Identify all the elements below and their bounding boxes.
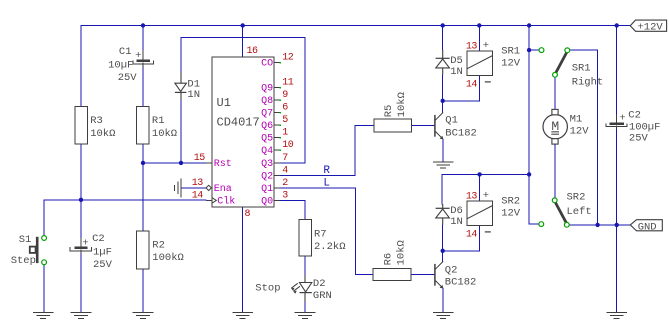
transistor Q2 BC182 — [435, 261, 476, 288]
svg-text:1N: 1N — [450, 216, 463, 228]
U1 unconnected pin green tips — [279, 63, 281, 151]
resistor R3 — [75, 107, 116, 144]
svg-text:10kΩ: 10kΩ — [90, 128, 115, 140]
svg-text:D2: D2 — [313, 278, 326, 290]
wire node R vertical riser — [354, 126, 356, 176]
svg-text:Rst: Rst — [214, 159, 232, 170]
wire SR1 coil pin14 down — [478, 75, 480, 100]
svg-text:Q0: Q0 — [261, 196, 273, 207]
svg-text:R6: R6 — [382, 253, 394, 266]
svg-text:C2: C2 — [92, 233, 105, 245]
op-amp U1 CD4017 counter box — [212, 57, 274, 207]
enable ground sideways at Ena pin — [175, 178, 181, 197]
junction C1 top rail — [141, 23, 145, 27]
wire Q3 feedback top run — [181, 36, 305, 38]
wire C2 bottom lead to ground — [80, 254, 82, 312]
svg-text:12V: 12V — [501, 208, 521, 220]
wire Q0 pin to R7 column — [280, 199, 305, 201]
U1 pin name labels — [261, 59, 273, 208]
junction C2b rail — [615, 23, 619, 27]
wire +12V top rail — [81, 25, 630, 27]
junction D5 rail — [441, 23, 445, 27]
diode D1 — [175, 72, 200, 102]
wire U1 pin8 to ground — [242, 207, 244, 312]
svg-text:12V: 12V — [570, 125, 590, 137]
junction SR1 coil rail — [477, 23, 481, 27]
svg-text:Q4: Q4 — [261, 146, 273, 157]
wire D1 bottom to reset line — [180, 100, 182, 163]
svg-text:+: + — [82, 238, 88, 250]
svg-text:25V: 25V — [93, 259, 113, 271]
svg-text:Ena: Ena — [214, 184, 232, 195]
wire clock line from S1 corner to U1 Clk pin — [44, 199, 206, 201]
wire left rail from +12V rail down to R3 top — [80, 26, 82, 107]
U1 pin numbers — [192, 46, 294, 220]
ground at Q2 emitter — [433, 312, 454, 318]
ground under R2 — [133, 312, 154, 318]
svg-text:BC182: BC182 — [445, 277, 477, 289]
svg-text:9: 9 — [282, 90, 288, 101]
svg-text:100kΩ: 100kΩ — [152, 252, 184, 264]
resistor R6 — [373, 240, 411, 281]
svg-text:Left: Left — [567, 206, 592, 218]
svg-text:13: 13 — [466, 192, 478, 203]
svg-text:5: 5 — [282, 115, 288, 126]
wire GND column right vertical — [597, 50, 599, 225]
diode D6 flyback — [436, 204, 463, 228]
wire node L from Q1 pin — [280, 187, 355, 189]
svg-text:13: 13 — [192, 178, 204, 189]
wire R6 right to Q2 base — [411, 274, 434, 276]
wire reset node down to R2 top — [142, 163, 144, 231]
wire D5 anode to Q1 collector node — [442, 75, 444, 101]
wire C1 bottom to R1 top — [142, 67, 144, 107]
ground under S1 — [33, 312, 54, 318]
svg-text:Q1: Q1 — [445, 114, 458, 126]
ground bottom right — [606, 312, 627, 318]
svg-text:10kΩ: 10kΩ — [152, 128, 177, 140]
motor M1 — [543, 109, 589, 144]
relay contact SR1 Right — [539, 48, 603, 89]
resistor R5 — [374, 92, 412, 132]
capacitor C2 electrolytic 1uF — [70, 233, 112, 271]
svg-text:R1: R1 — [152, 115, 165, 127]
svg-text:3: 3 — [282, 190, 288, 201]
U1 Rst pin stub — [206, 162, 212, 164]
wire Q3 pin to feedback vertical — [280, 162, 305, 164]
svg-text:Q1: Q1 — [261, 184, 273, 195]
junction reset node at R1 bottom — [141, 161, 145, 165]
LED D2 GRN — [291, 276, 332, 303]
wire Q0 down to R7 top — [304, 200, 306, 219]
svg-text:C2: C2 — [628, 110, 641, 122]
junction x528 rail — [527, 23, 531, 27]
U1 clock input triangle marker — [212, 198, 217, 204]
svg-text:6: 6 — [282, 103, 288, 114]
svg-text:Q2: Q2 — [445, 264, 458, 276]
wire SR1 coil pin13 to +12V rail — [478, 26, 480, 52]
diode D5 flyback — [436, 50, 463, 79]
svg-text:Q3: Q3 — [261, 159, 273, 170]
capacitor C1 — [108, 46, 154, 84]
svg-text:25V: 25V — [118, 72, 138, 84]
svg-text:BC182: BC182 — [445, 128, 477, 140]
svg-text:4: 4 — [282, 165, 288, 176]
wire D5 cathode to +12V rail — [442, 26, 444, 50]
wire Q2 emitter to ground — [442, 289, 444, 312]
wire SR1 pole to M1 plus — [554, 77, 556, 109]
wire node L to R6 left — [355, 274, 373, 276]
wire C2b top from +12V rail — [616, 26, 618, 115]
wire SR1 contact NO terminal stub — [529, 49, 539, 51]
svg-text:+: + — [135, 50, 141, 62]
power flag GND — [630, 220, 662, 234]
svg-text:25V: 25V — [629, 133, 649, 145]
wire M1 minus to SR2 pole — [554, 144, 556, 198]
wire SR2 common to GND flag — [569, 224, 630, 226]
junction GND column C2b — [615, 223, 619, 227]
svg-text:R: R — [323, 165, 330, 177]
wire D1 top lead — [180, 37, 182, 71]
power flag +12V — [630, 20, 666, 33]
wire SR1 coil pin14 to Q1 collector node — [443, 100, 480, 102]
svg-text:U1: U1 — [217, 96, 231, 110]
svg-text:1: 1 — [282, 128, 288, 139]
svg-text:Stop: Stop — [255, 282, 280, 294]
svg-text:Q8: Q8 — [261, 96, 273, 107]
svg-text:7: 7 — [282, 153, 288, 164]
wire D6 cathode riser — [441, 174, 443, 204]
resistor R2 — [137, 231, 184, 269]
svg-text:CD4017: CD4017 — [217, 115, 260, 129]
svg-text:Clk: Clk — [217, 195, 235, 207]
junction SR2 coil feed right — [527, 172, 531, 176]
svg-text:C1: C1 — [119, 46, 132, 58]
wire SR2 coil pin14 down — [478, 225, 480, 250]
junction Q2 collector node — [441, 249, 445, 253]
junction GND column top — [595, 223, 599, 227]
svg-text:2.2kΩ: 2.2kΩ — [314, 241, 346, 253]
wire SR2 coil pin13 lead — [479, 174, 481, 201]
svg-text:1N: 1N — [187, 89, 200, 101]
svg-text:14: 14 — [466, 79, 478, 90]
svg-text:14: 14 — [192, 191, 204, 202]
wire +12V branch column x528 — [528, 26, 530, 225]
wire node R from Q2 pin — [280, 174, 355, 176]
wire Q1 collector lead — [442, 101, 444, 113]
transistor Q1 BC182 — [435, 112, 477, 139]
wire SR1 contact common to GND column — [570, 49, 598, 51]
wire D6 anode to Q2 collector node — [442, 225, 444, 251]
svg-text:1µF: 1µF — [93, 246, 112, 258]
wire R7 bottom to D2 anode — [304, 256, 306, 275]
svg-text:Q5: Q5 — [261, 134, 273, 145]
ground under C2 — [71, 312, 92, 318]
wire SR2 contact NO terminal stub — [529, 223, 539, 225]
relay coil SR1 — [466, 40, 521, 90]
wire node R to R5 left — [355, 125, 374, 127]
wire C2b bottom to GND line — [616, 129, 618, 225]
svg-text:12V: 12V — [501, 58, 521, 70]
svg-text:L: L — [323, 177, 330, 189]
svg-text:R3: R3 — [90, 115, 103, 127]
svg-text:100µF: 100µF — [629, 122, 661, 134]
svg-text:10kΩ: 10kΩ — [396, 92, 408, 117]
svg-text:GND: GND — [638, 221, 657, 233]
junction clock node — [79, 198, 83, 202]
wire SR2 coil pin14 to Q2 collector node — [443, 250, 480, 252]
wire node L vertical dropper — [354, 188, 356, 275]
svg-text:10: 10 — [282, 140, 294, 151]
wire Q1 emitter to ground — [442, 139, 444, 161]
svg-text:10µF: 10µF — [108, 59, 133, 71]
svg-text:+: + — [483, 40, 489, 52]
resistor R1 — [137, 107, 177, 144]
wire Ena pin to enable ground — [181, 187, 206, 189]
svg-text:Step: Step — [11, 255, 36, 267]
svg-text:SR1: SR1 — [572, 63, 591, 75]
wire R3 bottom to clock node — [80, 144, 82, 200]
junction D1 reset line — [179, 161, 183, 165]
svg-text:14: 14 — [466, 229, 478, 240]
wire S1 top lead — [43, 200, 45, 236]
svg-text:12: 12 — [282, 53, 294, 64]
wire Q3 feedback right vertical — [304, 37, 306, 163]
svg-text:1N: 1N — [450, 66, 463, 78]
wire S1 bottom lead to ground — [43, 265, 45, 312]
ground at Q1 emitter — [433, 162, 454, 168]
svg-text:SR2: SR2 — [501, 196, 520, 208]
wire C1 top lead from rail — [142, 26, 144, 51]
wire C2 top lead — [80, 200, 82, 238]
wire reset line to U1 Rst pin — [143, 162, 206, 164]
wire R5 right to Q1 base — [411, 125, 434, 127]
svg-text:2: 2 — [282, 178, 288, 189]
svg-text:8: 8 — [245, 209, 251, 220]
U1 Clk pin stub — [206, 199, 212, 201]
wire U1 pin16 to +12V rail — [242, 26, 244, 57]
svg-text:+: + — [483, 190, 489, 202]
svg-text:+12V: +12V — [638, 21, 664, 33]
junction SR1 contact NO — [527, 48, 531, 52]
U1 Ena inversion diamond — [206, 185, 211, 190]
capacitor C2 electrolytic 100uF — [606, 110, 661, 145]
svg-text:GRN: GRN — [313, 290, 332, 302]
svg-text:13: 13 — [466, 42, 478, 53]
svg-text:SR1: SR1 — [501, 46, 520, 58]
svg-text:+: + — [619, 113, 625, 125]
wire R2 bottom to ground — [142, 269, 144, 312]
svg-text:SR2: SR2 — [567, 192, 586, 204]
junction pin16 rail — [241, 23, 245, 27]
svg-text:M1: M1 — [570, 114, 583, 126]
svg-text:Q6: Q6 — [261, 121, 273, 132]
wire GND line down to bottom ground — [616, 225, 618, 312]
wire D2 cathode to ground — [304, 302, 306, 312]
svg-text:10kΩ: 10kΩ — [395, 240, 407, 265]
ground under D2 — [295, 312, 316, 318]
svg-text:Right: Right — [572, 76, 604, 88]
wire R1 bottom to reset node — [142, 144, 144, 163]
push switch S1 — [11, 234, 47, 267]
svg-text:S1: S1 — [19, 234, 32, 246]
resistor R7 — [299, 220, 346, 257]
junction SR2 coil feed left — [477, 172, 481, 176]
svg-text:11: 11 — [282, 78, 294, 89]
ground under U1 pin8 — [232, 312, 253, 318]
svg-text:R2: R2 — [152, 239, 165, 251]
wire SR2 coil top run — [442, 173, 529, 175]
svg-text:Q9: Q9 — [261, 84, 273, 95]
svg-text:15: 15 — [194, 153, 206, 164]
relay contact SR2 Left — [539, 192, 592, 228]
svg-text:CO: CO — [261, 59, 273, 70]
svg-text:16: 16 — [247, 46, 259, 57]
svg-text:Q2: Q2 — [261, 171, 273, 182]
U1 right side pin stubs with open ends — [274, 63, 280, 201]
svg-text:R5: R5 — [383, 105, 395, 118]
svg-text:Q7: Q7 — [261, 109, 273, 120]
svg-text:R7: R7 — [314, 229, 327, 241]
wire Q2 collector lead — [442, 251, 444, 262]
relay coil SR2 — [466, 190, 521, 240]
junction Q1 collector node — [441, 99, 445, 103]
